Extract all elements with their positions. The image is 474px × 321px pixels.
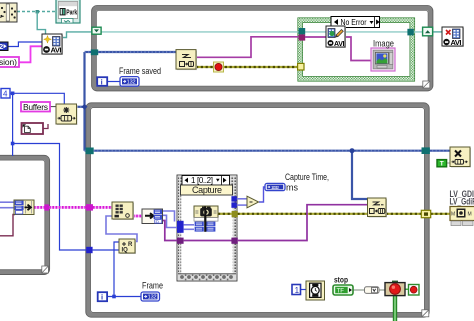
wire: AVI refnum from AVI open into top loop	[62, 32, 92, 38]
node: write frame to AVI buffer VI (top loop)	[176, 50, 197, 71]
error stop icon on wire (top loop)	[214, 62, 224, 72]
node: AVI Create (open write)	[42, 34, 63, 55]
wire: file path into config node	[43, 124, 48, 129]
wire: AVI refnum out of top loop to AVI close	[433, 31, 444, 33]
svg-text:LV_GdiP: LV_GdiP	[450, 196, 474, 206]
wire: Buffers label to config node	[50, 106, 56, 108]
session tunnel into top loop	[91, 49, 98, 55]
node: LV_GDIplus CLFN (right edge)	[450, 207, 474, 226]
error junction on bottom loop right border	[421, 210, 430, 217]
iteration terminal i (bottom loop)	[98, 292, 107, 301]
svg-text:T: T	[440, 161, 444, 168]
wire: session inside top loop to buffer-write VI	[94, 51, 176, 53]
svg-text:stop: stop	[334, 274, 348, 284]
svg-text:M: M	[468, 212, 472, 218]
string constant "(No Compression)" clipped	[0, 57, 19, 67]
node: AVI Close (top right)	[442, 27, 464, 47]
svg-text:AVI: AVI	[451, 38, 462, 47]
svg-text:M: M	[451, 212, 455, 218]
svg-text:Frame saved: Frame saved	[119, 66, 161, 76]
svg-text:1032: 1032	[271, 185, 279, 191]
svg-text:Image: Image	[373, 39, 394, 49]
node: Or / boolean func	[365, 287, 380, 294]
flat sequence structure (Capture) filmstrip border	[177, 175, 237, 281]
wires: cast node outputs to sequence tunnels	[163, 211, 195, 233]
wires inside case: image to AVI write then to Image indicator	[305, 36, 326, 38]
svg-text:AVI: AVI	[51, 46, 62, 55]
while loop (bottom capture loop) border	[86, 103, 429, 317]
file path constant	[22, 123, 44, 134]
svg-text:132: 132	[148, 295, 157, 301]
node: Obtain Queue "Park"	[56, 0, 80, 23]
wire: AVI refnum across top loop	[101, 31, 423, 33]
iteration terminal i (top loop)	[97, 77, 107, 86]
svg-text:ms: ms	[286, 182, 298, 192]
case tunnel right	[407, 29, 413, 36]
numeric control "2" (clipped)	[0, 42, 8, 51]
label "Buffers"	[21, 102, 50, 112]
svg-text:1 [0..2]: 1 [0..2]	[191, 176, 213, 185]
wire: error cluster in top loop	[196, 66, 298, 68]
node: IMAQdx grab (inside sequence)	[194, 206, 218, 232]
boolean constant T	[437, 160, 447, 168]
sequence frame label "Capture"	[181, 185, 233, 195]
image tunnel on sequence right border	[231, 238, 237, 244]
session tunnel on bottom loop	[86, 148, 94, 155]
wire: T const to close node	[447, 162, 452, 164]
wires: left loop lavender inputs and maroon out	[0, 202, 15, 236]
node: IMAQdx open/configure (clipped top-left)	[0, 3, 17, 22]
wire: image purple through sequence to frame-save VI	[163, 205, 368, 244]
node: IMAQdx snap/extract buffer (bottom loop)	[112, 202, 134, 220]
svg-text:i: i	[101, 77, 103, 86]
node: Wait (ms)	[306, 281, 325, 300]
sequence selector "1 [0..2]"	[182, 176, 230, 186]
numeric constant "1"	[292, 285, 301, 295]
wire: "4" buffer count branch	[10, 92, 87, 251]
session tunnel on bottom loop right border	[422, 147, 430, 154]
top loop corner resize glyph	[423, 81, 430, 88]
wire: buffer number loopback (lavender)	[106, 216, 137, 242]
bottom loop corner resize glyph	[422, 310, 429, 317]
case structure (No Error) border	[298, 18, 415, 81]
session branch to frame-save VI	[352, 151, 368, 199]
numeric tunnel into bottom loop	[86, 247, 92, 253]
node: image type cast (left loop, mirrored)	[14, 200, 34, 215]
indicator: Capture Time, ms	[265, 183, 285, 190]
svg-text:Park: Park	[66, 9, 77, 16]
left loop corner resize glyph	[42, 266, 49, 273]
indicator: Image (IMAQ image display)	[371, 48, 395, 71]
wire: error in bottom loop from grab to frame-save VI and out	[218, 213, 451, 215]
svg-text:R: R	[128, 242, 133, 248]
wire: image pink dashed from left loop to extract	[34, 204, 142, 216]
wire: i terminal to Frame saved indicator	[108, 81, 121, 83]
image tunnel out of left loop	[44, 204, 49, 210]
node: IMAQdx configure buffers	[56, 104, 78, 125]
wires: bottom row stop chain	[300, 289, 409, 321]
loop condition terminal	[409, 285, 420, 296]
svg-text:132: 132	[127, 80, 136, 86]
wire: IMAQdx session trunk	[77, 52, 93, 151]
node: cast image (bottom loop)	[142, 209, 163, 224]
case tunnels left	[299, 28, 306, 34]
svg-text:2: 2	[0, 42, 3, 51]
svg-text:IQ: IQ	[122, 248, 129, 254]
numeric constant "4"	[1, 89, 10, 99]
node: subtract	[247, 196, 259, 208]
node: AVI Write frame (inside case)	[326, 26, 346, 48]
shift register left (top loop)	[92, 27, 101, 34]
svg-text:4: 4	[3, 90, 8, 99]
svg-text:Buffers: Buffers	[23, 102, 48, 112]
wires: sequence right tunnels to subtract	[231, 187, 265, 208]
svg-text:1: 1	[295, 286, 300, 295]
wire: queue refnum dashed teal from init node to Obtain Queue	[17, 10, 56, 34]
wire: codec string into AVI open	[19, 46, 42, 62]
svg-text:TF: TF	[337, 288, 345, 294]
image tunnel on sequence left border	[177, 238, 184, 244]
wire: session across bottom loop	[94, 150, 450, 152]
node: IMAQdx close camera (right of bottom loop)	[450, 147, 471, 168]
node: quotient & remainder	[119, 239, 136, 254]
svg-text:Frame: Frame	[142, 281, 163, 291]
svg-text:Capture Time,: Capture Time,	[285, 172, 329, 182]
wire: numeric into AVI open (frame rate)	[8, 42, 42, 47]
indicator: Frame saved	[120, 77, 139, 87]
terminal: stop button	[385, 281, 405, 296]
boolean control: stop	[333, 285, 353, 295]
image tunnel into bottom loop	[86, 204, 93, 210]
svg-text:sion): sion)	[0, 57, 17, 67]
wire: image (magenta) from buffer-write VI to case	[196, 37, 299, 58]
svg-text:AVI: AVI	[334, 41, 345, 48]
indicator: Frame	[141, 292, 160, 301]
svg-text:Capture: Capture	[192, 185, 222, 195]
error tunnel on sequence right border	[232, 211, 238, 217]
node: frame-save VI (bottom loop)	[368, 198, 388, 218]
numeric tunnels on sequence left border	[177, 221, 184, 233]
wires: quotient-remainder node	[86, 242, 141, 298]
svg-text:i: i	[101, 293, 103, 302]
while loop (top AVI-save loop) border	[92, 6, 433, 91]
while loop (left, clipped) border	[0, 155, 50, 274]
case selector label "No Error"	[331, 17, 380, 28]
shift register right (top loop)	[423, 27, 433, 36]
